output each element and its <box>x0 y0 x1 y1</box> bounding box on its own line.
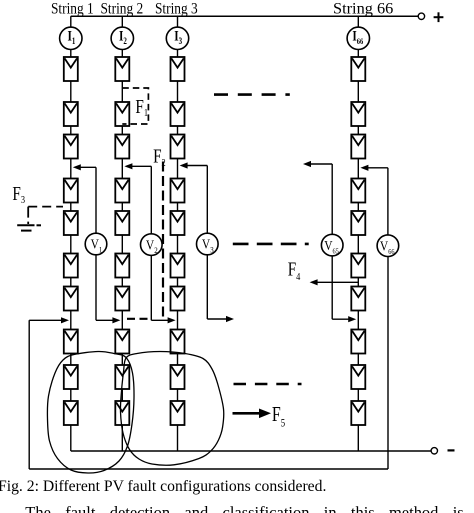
ground <box>17 225 41 230</box>
continuation dashes bottom <box>234 383 302 386</box>
wire V1 lower riser <box>95 255 97 320</box>
fault F2 dashed stub <box>127 318 150 320</box>
PV module string 3 row 3 <box>171 135 185 159</box>
PV module string 66 row 5 <box>351 211 365 235</box>
wire string 1 spine <box>70 49 72 451</box>
wire V3 lower tap arrow (to hidden string 4) <box>207 316 234 322</box>
wire V65 upper riser <box>331 164 333 234</box>
PV module string 2 row 6 <box>115 254 129 278</box>
voltmeter V65 <box>321 234 343 256</box>
top bus wire (+) <box>71 15 418 17</box>
PV module string 66 row 1 <box>351 57 365 81</box>
wire V65 lower riser <box>331 256 333 319</box>
fault F5 arrow <box>233 409 272 419</box>
fault F2 dashed line <box>162 162 164 321</box>
PV module string 2 row 10 <box>115 401 129 425</box>
wire V66 upper riser <box>387 168 389 235</box>
current source I1 <box>60 27 82 49</box>
PV module string 3 row 1 <box>171 57 185 81</box>
current source I3 <box>166 27 188 49</box>
wire frame left side <box>28 320 30 469</box>
PV module string 66 row 7 <box>351 287 365 311</box>
wire V65 tap arrow (to hidden string 65) <box>303 161 332 167</box>
voltmeter V1 <box>85 233 107 255</box>
fault F4 arrow <box>310 279 359 285</box>
PV module string 1 row 3 <box>64 135 78 159</box>
PV module string 3 row 10 <box>171 401 185 425</box>
continuation dashes top (strings 4..65) <box>214 93 290 96</box>
wire bus to I1 <box>70 16 72 27</box>
PV module string 1 row 9 <box>64 365 78 389</box>
PV module string 2 row 5 <box>115 211 129 235</box>
PV module string 2 row 3 <box>115 135 129 159</box>
wire V2 lower riser <box>150 255 152 320</box>
wire V2 tap arrow into string 2 <box>124 163 151 169</box>
PV module string 3 row 6 <box>171 254 185 278</box>
wire V1 tap arrow into string 1 <box>73 164 96 170</box>
PV module string 1 row 6 <box>64 254 78 278</box>
wire string 2 spine <box>121 49 123 451</box>
PV module string 2 row 8 <box>115 330 129 354</box>
svg-text:Fig. 2: Different PV fault con: Fig. 2: Different PV fault configuration… <box>0 478 326 495</box>
wire V3 upper riser <box>206 166 208 234</box>
negative terminal <box>431 448 454 454</box>
positive terminal <box>418 12 443 22</box>
PV module string 66 row 2 <box>351 102 365 126</box>
voltmeter V2 <box>141 234 163 256</box>
PV module string 1 row 8 <box>64 330 78 354</box>
svg-text:The fault detection and classi: The fault detection and classification i… <box>25 503 463 513</box>
PV module string 1 row 2 <box>64 102 78 126</box>
PV module string 2 row 9 <box>115 365 129 389</box>
svg-text:String 66: String 66 <box>333 1 393 18</box>
wire V2 lower tap arrow into string 3 <box>151 317 175 323</box>
PV module string 66 row 9 <box>351 365 365 389</box>
svg-text:String 1: String 1 <box>51 1 94 18</box>
PV module string 1 row 10 <box>64 401 78 425</box>
fault F3 dashed wire horizontal <box>28 206 63 208</box>
node F5 fault region blob left lobe <box>47 351 134 473</box>
PV module string 3 row 2 <box>171 102 185 126</box>
PV module string 66 row 8 <box>351 330 365 354</box>
wire V1 upper riser <box>95 167 97 233</box>
wire V65 lower tap arrow into string 66 <box>332 316 356 322</box>
wire bus to I2 <box>121 16 123 27</box>
PV module string 3 row 8 <box>171 330 185 354</box>
continuation dashes middle (V4..V64) <box>233 243 309 246</box>
wire V66 tap arrow into string 66 <box>360 165 388 171</box>
PV module string 2 row 7 <box>115 287 129 311</box>
PV module string 3 row 4 <box>171 179 185 203</box>
wire bus to I66 <box>357 16 359 27</box>
voltmeter V66 <box>377 235 399 257</box>
PV module string 1 row 1 <box>64 57 78 81</box>
wire V3 tap arrow into string 3 <box>180 162 208 168</box>
PV module string 1 row 7 <box>64 287 78 311</box>
bottom bus wire (-) <box>71 450 431 452</box>
svg-text:String 2: String 2 <box>101 1 144 18</box>
PV module string 3 row 7 <box>171 287 185 311</box>
PV module string 3 row 5 <box>171 211 185 235</box>
svg-text:String 3: String 3 <box>155 1 198 18</box>
voltmeter V3 <box>197 233 219 255</box>
PV module string 66 row 6 <box>351 254 365 278</box>
wire V1 lower tap arrow into string 2 <box>96 317 120 323</box>
wire frame bottom <box>29 468 388 470</box>
wire frame arrow into string 1 <box>29 317 69 323</box>
fault F1 dashed box <box>122 88 148 124</box>
wire bus to I3 <box>177 16 179 27</box>
PV module string 66 row 10 <box>351 401 365 425</box>
PV module string 1 row 4 <box>64 179 78 203</box>
wire V3 lower riser <box>206 255 208 319</box>
PV module string 3 row 9 <box>171 365 185 389</box>
current source I2 <box>111 27 133 49</box>
current source I66 <box>347 27 369 49</box>
wire string 3 spine <box>177 49 179 451</box>
PV module string 66 row 3 <box>351 135 365 159</box>
wire frame right / V66 lower riser <box>387 256 389 469</box>
node F5 fault region blob right lobe <box>120 352 223 466</box>
wire V2 upper riser <box>150 166 152 234</box>
fault F3 dashed wire vertical <box>27 207 29 224</box>
PV module string 1 row 5 <box>64 211 78 235</box>
PV module string 2 row 4 <box>115 179 129 203</box>
PV module string 2 row 1 <box>115 57 129 81</box>
wire string 66 spine <box>357 49 359 451</box>
PV module string 66 row 4 <box>351 179 365 203</box>
PV module string 2 row 2 <box>115 102 129 126</box>
